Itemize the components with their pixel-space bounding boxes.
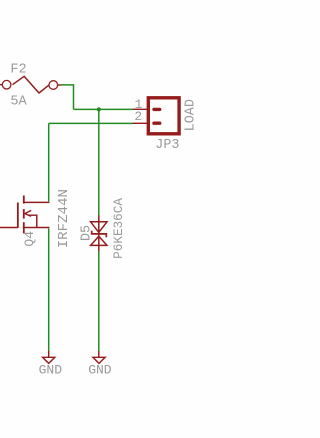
svg-text:F2: F2 <box>10 63 26 78</box>
ground left <box>43 351 55 363</box>
svg-text:P6KE36CA: P6KE36CA <box>111 198 126 259</box>
ground right <box>93 351 105 363</box>
svg-text:2: 2 <box>134 109 142 124</box>
svg-text:GND: GND <box>39 363 63 378</box>
connector JP3 <box>148 98 179 134</box>
pin 1 lead <box>133 108 147 110</box>
wire mosfet source to gnd <box>48 228 50 351</box>
junction node <box>97 107 101 111</box>
wire down to mosfet drain <box>48 123 50 201</box>
mosfet Q4 <box>0 196 49 234</box>
wire D5 to gnd <box>98 251 100 351</box>
wire top horizontal to JP3 pin 1 <box>74 108 133 110</box>
fuse F2 <box>0 76 61 93</box>
svg-text:Q4: Q4 <box>22 231 37 247</box>
tvs diode D5 <box>91 215 107 251</box>
svg-text:JP3: JP3 <box>155 138 179 153</box>
svg-text:LOAD: LOAD <box>183 99 198 131</box>
svg-text:5A: 5A <box>10 95 27 110</box>
wire fuse to corner <box>61 85 74 110</box>
svg-text:GND: GND <box>88 363 112 378</box>
wire JP3 pin2 horizontal <box>49 122 133 124</box>
wire junction down to D5 <box>98 109 100 215</box>
svg-text:IRFZ44N: IRFZ44N <box>56 189 72 248</box>
pin 2 lead <box>133 122 147 124</box>
svg-text:D5: D5 <box>80 225 95 241</box>
